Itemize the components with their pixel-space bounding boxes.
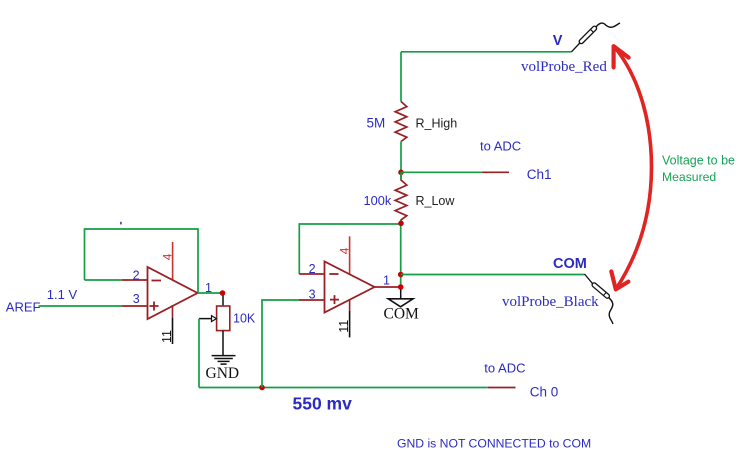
probe volProbe_Black lead bbox=[585, 274, 593, 283]
resistor R_High bbox=[395, 102, 407, 142]
wire: V down to R_High bbox=[400, 52, 402, 102]
wire: R_High to junction bbox=[400, 142, 402, 173]
op-amp U1 bbox=[148, 267, 198, 319]
RV1 wiper arrow bbox=[199, 318, 212, 320]
wire: AREF to U1 pin 3 bbox=[39, 305, 123, 307]
U1 pin 11 bbox=[172, 305, 174, 318]
wire: Ch0 stub bbox=[488, 387, 516, 389]
svg-text:10K: 10K bbox=[233, 312, 256, 326]
ground COM symbol bbox=[388, 299, 413, 307]
U1 pin 2 stub bbox=[122, 279, 148, 281]
svg-text:volProbe_Black: volProbe_Black bbox=[502, 294, 599, 310]
wire: output riser to divider bbox=[400, 223, 402, 287]
wire: output to RV1 bbox=[222, 296, 224, 307]
wire: U1 pin2 green segment bbox=[85, 279, 123, 281]
probe volProbe_Red cable bbox=[596, 23, 620, 27]
svg-text:1.1 V: 1.1 V bbox=[47, 287, 78, 302]
svg-text:volProbe_Red: volProbe_Red bbox=[521, 59, 607, 75]
junction: U2 output bbox=[398, 284, 404, 290]
junction: U1 output node bbox=[220, 290, 226, 296]
svg-text:2: 2 bbox=[309, 262, 316, 276]
svg-text:5M: 5M bbox=[367, 116, 386, 131]
wire: wiper down to bottom rail bbox=[198, 319, 200, 388]
svg-text:COM: COM bbox=[384, 306, 420, 323]
resistor R_Low bbox=[395, 172, 407, 223]
U2 pin 4 bbox=[349, 236, 351, 275]
op-amp U2 bbox=[325, 262, 375, 313]
wire: COM net bbox=[401, 274, 585, 276]
svg-text:4: 4 bbox=[161, 253, 175, 260]
U1 pin 3 stub bbox=[122, 305, 148, 307]
probe volProbe_Red body bbox=[578, 25, 597, 44]
svg-text:11: 11 bbox=[337, 320, 351, 333]
svg-text:Voltage to be: Voltage to be bbox=[662, 154, 735, 168]
junction: rail / U2 pin3 branch bbox=[259, 385, 265, 391]
svg-text:GND is NOT CONNECTED to COM: GND is NOT CONNECTED to COM bbox=[397, 437, 591, 451]
svg-text:100k: 100k bbox=[364, 193, 392, 208]
svg-text:11: 11 bbox=[160, 330, 174, 343]
wire: Ch1 tap bbox=[401, 171, 482, 173]
junction: COM tap bbox=[398, 272, 404, 278]
svg-text:2: 2 bbox=[133, 268, 140, 282]
svg-text:1: 1 bbox=[383, 274, 390, 288]
svg-text:550 mv: 550 mv bbox=[293, 394, 353, 414]
svg-text:AREF: AREF bbox=[6, 300, 41, 315]
svg-text:R_High: R_High bbox=[416, 117, 458, 131]
junction: R_Low bottom / feedback bbox=[398, 221, 404, 227]
wire: U2 feedback loop bbox=[299, 224, 401, 274]
U2 pin 3 stub bbox=[299, 299, 325, 301]
stray mark bbox=[120, 222, 122, 225]
wire: U2 pin3 branch from rail bbox=[262, 300, 299, 388]
potentiometer RV1 body bbox=[217, 306, 230, 331]
probe volProbe_Black cable bbox=[609, 298, 613, 324]
svg-text:Ch1: Ch1 bbox=[527, 167, 552, 182]
wire: U1 feedback loop bbox=[85, 229, 199, 293]
junction: divider mid node bbox=[398, 170, 404, 176]
wire: U2 output bbox=[375, 286, 401, 288]
ground GND symbol bbox=[212, 356, 236, 365]
svg-text:COM: COM bbox=[553, 256, 587, 272]
svg-text:to ADC: to ADC bbox=[480, 138, 521, 153]
svg-text:GND: GND bbox=[206, 365, 240, 382]
annotation arrow shaft bbox=[615, 48, 652, 289]
wire: output to COM ground bbox=[400, 289, 402, 299]
svg-text:V: V bbox=[553, 33, 563, 49]
svg-text:to ADC: to ADC bbox=[484, 361, 525, 376]
U2 pin 2 stub bbox=[299, 273, 324, 275]
svg-text:R_Low: R_Low bbox=[416, 194, 456, 208]
svg-text:3: 3 bbox=[133, 292, 140, 306]
wire: bottom rail net 550mv bbox=[199, 387, 488, 389]
wire: RV1 to GND bbox=[222, 331, 224, 355]
annotation arrow head top bbox=[614, 46, 629, 67]
svg-text:4: 4 bbox=[337, 247, 351, 254]
U2 pin 11 bbox=[349, 300, 351, 312]
annotation arrow head bottom bbox=[611, 271, 628, 289]
svg-text:3: 3 bbox=[309, 287, 316, 301]
probe volProbe_Black body bbox=[591, 282, 610, 299]
svg-text:Measured: Measured bbox=[662, 170, 716, 184]
probe volProbe_Red lead bbox=[572, 43, 580, 52]
U1 pin 4 bbox=[172, 242, 174, 281]
svg-text:Ch 0: Ch 0 bbox=[530, 384, 559, 399]
wire: U1 output bbox=[198, 292, 223, 294]
wire: top rail to V probe bbox=[401, 51, 572, 53]
